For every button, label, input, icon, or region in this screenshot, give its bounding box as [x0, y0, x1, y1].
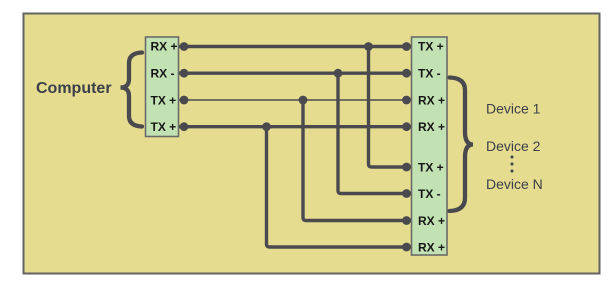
brace right (device group) — [450, 78, 474, 212]
ellipsis dots — [511, 156, 514, 159]
svg-text:RX +: RX + — [418, 241, 445, 255]
svg-text:TX +: TX + — [418, 161, 444, 175]
node B junction — [334, 69, 343, 78]
svg-text:TX +: TX + — [418, 40, 444, 54]
terminal block computer — [146, 37, 179, 137]
wire vertical from node A down to TX+ row5 — [369, 47, 412, 168]
svg-text:RX +: RX + — [418, 120, 445, 134]
svg-text:RX -: RX - — [151, 67, 175, 81]
svg-text:TX +: TX + — [151, 120, 177, 134]
wire computer TX+ to RX+ row3 (thin) — [179, 99, 411, 101]
wire vertical from node D down to RX+ row8 — [267, 127, 412, 247]
svg-text:Device 1: Device 1 — [486, 101, 541, 117]
brace left (computer group) — [121, 53, 143, 127]
svg-text:TX +: TX + — [151, 94, 177, 108]
svg-text:RX +: RX + — [418, 214, 445, 228]
svg-text:Device 2: Device 2 — [486, 138, 541, 154]
node A junction — [364, 42, 373, 51]
computer pin dots — [180, 42, 189, 51]
svg-text:TX -: TX - — [418, 67, 441, 81]
wire computer RX- to TX- row2 — [179, 71, 411, 74]
node C junction — [299, 96, 308, 105]
wire computer TX+ to RX+ row4 — [179, 125, 411, 128]
node D junction — [262, 122, 271, 131]
svg-text:RX +: RX + — [151, 40, 178, 54]
wire computer RX+ to TX+ row1 — [179, 45, 411, 48]
terminal block devices — [412, 37, 448, 255]
wire vertical from node C down to RX+ row7 — [303, 100, 411, 221]
svg-text:Computer: Computer — [36, 80, 112, 97]
device pin dots — [402, 42, 411, 51]
svg-text:RX +: RX + — [418, 94, 445, 108]
wire vertical from node B down to TX- row6 — [338, 73, 411, 193]
svg-text:TX -: TX - — [418, 187, 441, 201]
svg-text:Device N: Device N — [486, 176, 543, 192]
